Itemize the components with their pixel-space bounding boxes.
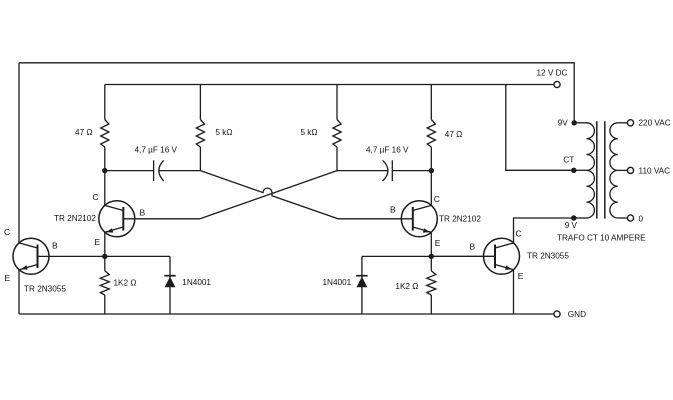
node 9V top tap dot (572, 120, 577, 125)
wire collector of Q3 from node R1 (430, 171, 432, 206)
svg-text:9 V: 9 V (565, 221, 578, 230)
node L3 junction dot (102, 254, 107, 259)
wire top bus from left edge to transformer riser (19, 63, 574, 123)
svg-text:B: B (470, 242, 476, 252)
svg-text:B: B (140, 207, 146, 217)
svg-text:12 V DC: 12 V DC (537, 69, 568, 78)
node R1 junction dot (429, 168, 434, 173)
svg-text:C: C (516, 229, 522, 239)
terminal 0 (627, 215, 633, 221)
wire emitter of Q3 down to node R3 (430, 232, 432, 256)
resistor R3 5k (333, 85, 341, 171)
wire CT riser from 12V bus (506, 85, 574, 171)
wire left edge collector of Q1 (18, 63, 20, 243)
resistor R1 47 ohm (101, 85, 109, 171)
svg-text:TR 2N2102: TR 2N2102 (54, 214, 96, 223)
transistor Q4 TR 2N3055 right (484, 238, 520, 274)
capacitor C1 4.7uF (105, 160, 201, 181)
svg-text:TR 2N3055: TR 2N3055 (527, 251, 569, 260)
wire cross-coupling diagonal B (200, 171, 337, 219)
terminal 12V DC (554, 81, 560, 87)
svg-text:1N4001: 1N4001 (323, 278, 352, 287)
svg-text:47 Ω: 47 Ω (445, 130, 463, 139)
svg-text:1K2 Ω: 1K2 Ω (395, 282, 418, 291)
wire base of Q1 to node L3 (38, 255, 105, 257)
wire emitter of Q2 down to node L3 (104, 232, 106, 256)
svg-text:C: C (93, 192, 99, 202)
transistor Q3 TR 2N2102 right (338, 201, 437, 237)
svg-text:5 kΩ: 5 kΩ (215, 128, 232, 137)
wire emitter of Q4 to ground bus (513, 270, 515, 314)
node R3 junction dot (429, 254, 434, 259)
svg-text:0: 0 (639, 214, 644, 223)
resistor R5 1K2 left (100, 256, 109, 314)
wire base of Q4 from node R3 (431, 255, 495, 257)
diode D2 1N4001 (356, 256, 367, 314)
wire collector of Q2 from node L1 (104, 171, 106, 206)
transformer T1 primary winding (574, 123, 595, 218)
wire node R3 to diode D2 (362, 255, 431, 257)
svg-text:1K2 Ω: 1K2 Ω (114, 279, 137, 288)
svg-text:E: E (5, 273, 11, 283)
svg-text:TR 2N2102: TR 2N2102 (439, 214, 481, 223)
svg-text:220 VAC: 220 VAC (639, 118, 671, 127)
svg-text:TR 2N3055: TR 2N3055 (24, 285, 66, 294)
wire 12V bus (105, 84, 554, 86)
svg-text:B: B (52, 240, 58, 250)
wire bottom ground bus (19, 313, 554, 315)
transistor Q2 TR 2N2102 left (99, 201, 200, 237)
svg-text:110 VAC: 110 VAC (639, 166, 671, 175)
svg-text:E: E (435, 238, 441, 248)
node CT tap dot (571, 168, 576, 173)
diode D1 1N4001 (164, 256, 175, 314)
wire cross-coupling diagonal A with hop (200, 171, 338, 219)
svg-text:GND: GND (568, 310, 586, 319)
svg-text:5 kΩ: 5 kΩ (300, 128, 317, 137)
svg-text:CT: CT (563, 155, 574, 164)
svg-text:4,7 µF 16 V: 4,7 µF 16 V (135, 146, 178, 155)
terminal GND (554, 311, 560, 317)
transistor Q1 TR 2N3055 left (13, 238, 49, 274)
terminal 220 VAC (627, 120, 633, 126)
resistor R4 47 ohm (427, 85, 435, 171)
transformer T1 core (597, 121, 605, 218)
terminal 110 VAC (627, 167, 633, 173)
resistor R6 1K2 right (427, 256, 436, 314)
wire node L3 to diode D1 (105, 255, 170, 257)
transformer T1 secondary winding (610, 123, 628, 218)
capacitor C2 4.7uF (337, 160, 431, 181)
svg-text:C: C (434, 194, 440, 204)
svg-text:1N4001: 1N4001 (182, 278, 211, 287)
svg-text:B: B (390, 205, 396, 215)
svg-text:47 Ω: 47 Ω (75, 128, 93, 137)
svg-text:E: E (518, 271, 524, 281)
wire collector of Q4 to transformer bottom tap (514, 218, 574, 243)
resistor R2 5k (196, 85, 204, 171)
node 9V bottom tap dot (571, 215, 576, 220)
svg-text:4,7 µF 16 V: 4,7 µF 16 V (366, 146, 409, 155)
svg-text:9V: 9V (558, 118, 569, 127)
svg-text:TRAFO CT 10 AMPERE: TRAFO CT 10 AMPERE (557, 233, 646, 242)
wire left edge emitter of Q1 to bottom bus (18, 270, 20, 314)
svg-text:C: C (4, 227, 10, 237)
node L1 junction dot (102, 168, 107, 173)
svg-text:E: E (95, 237, 101, 247)
